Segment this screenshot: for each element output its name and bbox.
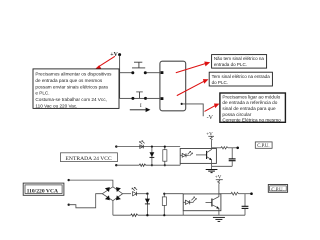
resistor R6 — [231, 192, 238, 195]
diode D4 — [146, 194, 148, 216]
current arrow — [130, 109, 146, 111]
node J2 — [146, 193, 148, 195]
resistor R5 — [163, 194, 165, 216]
redraw node dots above block fill — [161, 71, 164, 74]
diode BR1-D4 — [116, 195, 121, 200]
node +V junction dot — [118, 53, 121, 56]
wire output bottom mid — [212, 165, 233, 167]
capacitor C1 — [231, 148, 233, 159]
svg-text:entrada do PLC.: entrada do PLC. — [214, 62, 247, 67]
svg-text:C.P.U.: C.P.U. — [271, 188, 283, 193]
svg-text:e PLC.: e PLC. — [35, 91, 49, 96]
wire bridge output — [123, 193, 131, 195]
diode BR1-D3 — [105, 195, 110, 200]
opto-isolator U3 box — [183, 194, 221, 211]
wire output mid — [212, 147, 221, 149]
bridge rectifier BR1 — [102, 187, 122, 201]
note box C — [220, 93, 286, 122]
svg-text:de entrada a referência do: de entrada a referência do — [222, 100, 277, 105]
node terminal T1 — [115, 145, 117, 147]
diode D1 — [151, 147, 153, 166]
svg-text:Corrente Elétrica no mesmo: Corrente Elétrica no mesmo — [222, 118, 281, 123]
phototransistor Q1 — [196, 154, 207, 156]
svg-text:do PLC.: do PLC. — [212, 80, 228, 85]
wire opto left leg — [182, 211, 184, 216]
LED D3 indicator — [133, 192, 137, 196]
wire line input bottom — [69, 194, 103, 208]
svg-text:110 Vac ou 220 Vac.: 110 Vac ou 220 Vac. — [35, 103, 77, 108]
svg-text:Precisamos ligar ao módulo: Precisamos ligar ao módulo — [222, 94, 280, 99]
node terminal T3 — [68, 179, 70, 181]
label box CPU mid — [255, 142, 272, 148]
wire to opto — [164, 193, 183, 195]
diode BR1-D2 — [116, 187, 121, 192]
label box CPU bottom — [268, 185, 287, 193]
node PLC input 1 — [161, 71, 164, 74]
note box B — [209, 72, 272, 86]
svg-text:110/220 VCA: 110/220 VCA — [27, 188, 58, 194]
svg-text:C.P.U.: C.P.U. — [257, 144, 269, 149]
wire emitter mid — [211, 160, 213, 169]
svg-text:-V: -V — [207, 115, 214, 121]
wire row1 right — [147, 72, 162, 74]
PLC block U1 — [160, 61, 186, 111]
node output mid — [236, 147, 239, 150]
svg-text:possam enviar sinais elétricos: possam enviar sinais elétricos para — [35, 84, 108, 89]
capacitor C2 — [244, 194, 246, 207]
wire +V vertical feed — [119, 56, 121, 99]
resistor R4 — [131, 214, 138, 217]
label box 110/220 VCA — [23, 183, 64, 195]
svg-text:possa circular: possa circular — [222, 112, 251, 117]
diode BR1-D1 — [105, 187, 110, 192]
note box A — [212, 55, 267, 69]
wire top rail — [116, 146, 180, 148]
svg-text:Não tem sinal elétrico na: Não tem sinal elétrico na — [214, 56, 265, 61]
svg-text:Tem sinal elétrico na entrada: Tem sinal elétrico na entrada — [212, 74, 271, 79]
LED D5 — [183, 201, 185, 203]
wire row1 left — [120, 72, 132, 74]
wire output bottom schematic — [219, 193, 231, 195]
svg-text:Costuma-se trabalhar com 24 Vc: Costuma-se trabalhar com 24 Vcc, — [35, 97, 106, 102]
red arrow to note 1 — [98, 56, 115, 67]
switch S2 pushbutton closed — [136, 92, 143, 98]
red arrow to note A — [176, 64, 206, 73]
resistor R7 in bottom rail — [139, 164, 145, 166]
node output bottom — [250, 192, 253, 195]
red arrow to note B — [177, 81, 204, 95]
wire line input top — [69, 180, 113, 187]
node terminal T2 — [115, 164, 117, 166]
switch S1 pushbutton open — [132, 62, 145, 68]
svg-text:Precisamos alimentar os dispos: Precisamos alimentar os dispositivos — [35, 72, 112, 77]
ground mid — [206, 169, 218, 171]
node terminal T4 — [68, 204, 70, 206]
opto-isolator U2 box — [180, 149, 216, 164]
wire row2 right — [147, 97, 162, 99]
resistor R2 — [164, 147, 166, 166]
phototransistor Q2 — [206, 201, 212, 203]
LED light arrows — [191, 197, 196, 202]
wire bridge bottom drop — [112, 201, 114, 216]
svg-text:sinal de entrada para que: sinal de entrada para que — [222, 106, 276, 111]
LED D2 — [180, 154, 182, 156]
wire bottom rail — [113, 214, 131, 216]
svg-text:ENTRADA 24 VCC: ENTRADA 24 VCC — [66, 156, 112, 162]
node J1 — [151, 146, 153, 148]
LED light arrows — [188, 151, 193, 156]
ground bottom — [213, 216, 225, 218]
wire row2 left — [120, 97, 132, 99]
wire bottom rail — [116, 164, 139, 166]
LED D0 indicator — [140, 145, 143, 149]
red arrow to note C — [205, 106, 216, 112]
wire -V return — [182, 104, 204, 116]
svg-text:de entrada para que os mesmos: de entrada para que os mesmos — [35, 78, 102, 83]
node PLC input 2 — [161, 97, 164, 100]
resistor R3 — [221, 147, 228, 149]
svg-text:I: I — [140, 103, 142, 109]
label box ENTRADA 24 VCC — [61, 153, 118, 162]
node -V junction dot — [181, 103, 183, 105]
note box 1 — [33, 69, 119, 109]
